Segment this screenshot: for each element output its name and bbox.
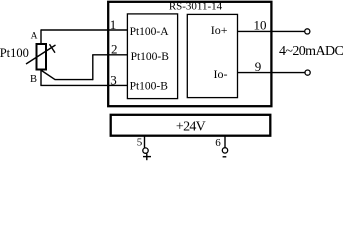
svg-text:RS-3011-14: RS-3011-14 xyxy=(169,1,223,13)
module box RS-3011-14 xyxy=(108,2,271,106)
Pt100 diagonal barb xyxy=(50,44,56,53)
wire pin2 to module xyxy=(92,54,127,56)
Pt100 diagonal stroke xyxy=(26,45,56,64)
terminal 6 minus xyxy=(223,156,227,158)
svg-text:Io-: Io- xyxy=(214,67,228,81)
power supply box +24V xyxy=(111,115,271,136)
svg-text:A: A xyxy=(31,32,38,42)
terminal 5 stub xyxy=(144,137,146,149)
terminal 5 circle xyxy=(143,148,148,153)
terminal 6 circle xyxy=(222,148,227,153)
terminal circle pin9 xyxy=(305,70,310,75)
svg-text:B: B xyxy=(30,74,37,85)
input terminal block (inner left box) xyxy=(127,14,177,99)
wire B diagonal to step xyxy=(42,71,56,80)
svg-text:Pt100-B: Pt100-B xyxy=(131,51,170,63)
wire A vertical xyxy=(40,29,42,44)
terminal 5 plus crossbar xyxy=(143,156,151,158)
svg-text:6: 6 xyxy=(215,137,221,149)
svg-text:Io+: Io+ xyxy=(211,23,228,37)
wire pin9 output xyxy=(238,72,305,74)
svg-text:+24V: +24V xyxy=(176,120,206,135)
svg-text:4~20mADC: 4~20mADC xyxy=(279,44,343,59)
svg-text:Pt100-A: Pt100-A xyxy=(130,26,170,38)
terminal 5 plus tail vertical xyxy=(146,154,148,161)
wire step horizontal xyxy=(55,79,93,81)
wire pin10 output xyxy=(238,30,305,32)
svg-text:Pt100-B: Pt100-B xyxy=(130,81,169,93)
svg-text:10: 10 xyxy=(254,17,267,32)
wire pin1 from Pt100 A to module xyxy=(41,29,128,31)
terminal 6 stub xyxy=(224,137,226,148)
wire pin3 from B to module xyxy=(40,84,127,86)
wire step vertical xyxy=(92,55,94,80)
svg-text:9: 9 xyxy=(255,59,262,74)
output block (inner right box) xyxy=(187,14,237,97)
svg-text:5: 5 xyxy=(137,136,143,148)
Pt100 RTD body xyxy=(37,44,47,70)
terminal circle pin10 xyxy=(305,29,310,34)
wire B vertical xyxy=(40,70,42,86)
svg-text:Pt100: Pt100 xyxy=(0,46,29,60)
